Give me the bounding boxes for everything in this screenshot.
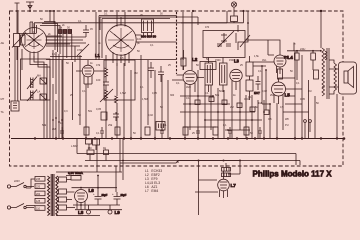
pickup jacks (304, 120, 312, 139)
svg-text:0,1: 0,1 (186, 96, 190, 100)
svg-text:Philips Modelo 117 X: Philips Modelo 117 X (253, 170, 333, 179)
svg-text:+: + (93, 192, 95, 196)
svg-text:2M: 2M (230, 105, 234, 109)
wires tube2 feed (96, 12, 102, 60)
trimmer row (217, 44, 231, 46)
mid column components (100, 55, 131, 139)
svg-text:L8: L8 (78, 210, 84, 215)
svg-text:0,1: 0,1 (52, 53, 56, 56)
right small parts (287, 43, 327, 80)
terminal block MT (11, 101, 19, 111)
small parts row (AF/AVC) (180, 96, 309, 130)
svg-text:P1: P1 (284, 56, 288, 60)
svg-text:50: 50 (67, 26, 70, 30)
antenna terminal 1 (15, 3, 20, 12)
svg-text:100: 100 (96, 78, 101, 82)
left margin labels (1, 41, 5, 114)
svg-text:0,1: 0,1 (78, 20, 82, 23)
tube L5 (272, 82, 291, 104)
wire right top run (246, 40, 274, 55)
selector labels (14, 178, 41, 210)
svg-text:0,1: 0,1 (150, 44, 154, 47)
svg-text:6,3V 30mA: 6,3V 30mA (68, 171, 83, 175)
svg-text:240v: 240v (300, 48, 306, 51)
svg-text:50: 50 (133, 132, 136, 135)
svg-text:1k: 1k (222, 90, 225, 93)
svg-text:pF: pF (137, 41, 140, 45)
left column junctions (52, 117, 63, 123)
svg-text:300: 300 (170, 94, 175, 97)
svg-text:EXT: EXT (254, 91, 260, 95)
AF junction dots (189, 95, 265, 131)
band coil LW (27, 90, 37, 102)
svg-text:0,1: 0,1 (96, 132, 100, 135)
svg-text:0,5: 0,5 (268, 117, 272, 121)
AF tiny labels (186, 93, 289, 127)
svg-text:50: 50 (78, 114, 81, 117)
antenna coil T1 (12, 11, 26, 60)
svg-text:0,1: 0,1 (248, 96, 252, 99)
svg-text:50: 50 (316, 102, 319, 105)
svg-text:50: 50 (290, 70, 293, 73)
svg-text:L7: L7 (231, 183, 237, 188)
svg-text:AE: AE (1, 41, 5, 45)
rectifier tube L6 (75, 188, 95, 210)
ext antenna cap (254, 76, 261, 95)
svg-text:1M: 1M (134, 72, 137, 75)
cathode labels (71, 145, 107, 150)
trimmer box pair (59, 30, 72, 34)
dial lamp Q (231, 2, 238, 23)
svg-text:50: 50 (66, 62, 69, 65)
wires antenna lattice (18, 12, 36, 34)
wire heater run (181, 11, 244, 23)
tube2 side labels (137, 37, 142, 45)
svg-text:Rg: Rg (103, 147, 107, 150)
secondary taps (59, 177, 67, 210)
resistor network box R900 (136, 19, 177, 42)
svg-text:50: 50 (160, 13, 163, 16)
tube V-gang A (big circle left) (22, 23, 47, 58)
svg-text:WF: WF (285, 117, 289, 121)
svg-text:50: 50 (250, 132, 253, 135)
wires osc grid runs (46, 37, 86, 46)
svg-text:125: 125 (36, 200, 41, 203)
svg-text:0,1: 0,1 (258, 70, 262, 73)
svg-text:2k: 2k (62, 24, 65, 27)
wire L4 plate (268, 40, 280, 55)
svg-text:TA: TA (1, 110, 4, 114)
power transformer (48, 174, 59, 216)
svg-text:0,02: 0,02 (262, 90, 267, 93)
left column verticals (53, 50, 62, 139)
svg-text:L3: L3 (234, 59, 240, 64)
svg-text:0,1: 0,1 (82, 90, 86, 93)
svg-text:0,1: 0,1 (163, 124, 167, 127)
svg-text:1500: 1500 (215, 59, 221, 62)
wires L1 plate (76, 60, 105, 71)
svg-text:2k: 2k (48, 33, 51, 36)
RC pairs above bus (60, 127, 262, 139)
wires top runs (34, 22, 227, 24)
tube L3 (230, 59, 242, 91)
wires lattice feeds from border (50, 11, 54, 24)
heater resistor (68, 171, 83, 180)
svg-text:0,3: 0,3 (64, 110, 68, 113)
svg-text:0,05: 0,05 (96, 107, 102, 111)
svg-text:L9: L9 (115, 210, 121, 215)
voltage selector (26, 177, 45, 211)
wire L5 plate to transformer (279, 78, 303, 89)
svg-text:MA: MA (37, 74, 41, 78)
wire speaker return (336, 94, 338, 139)
speaker (339, 62, 357, 94)
antenna terminal 2 (26, 2, 34, 12)
earth symbols L8 L9 (78, 205, 120, 215)
L7 grid parts (195, 160, 241, 193)
svg-text:1k: 1k (90, 62, 93, 65)
svg-text:7k: 7k (293, 43, 296, 46)
svg-text:AVC: AVC (186, 86, 191, 89)
tube V-gang B (big circle mid) (106, 12, 136, 63)
band switch box 1 (40, 78, 47, 84)
svg-text:1,5k: 1,5k (254, 55, 259, 58)
svg-text:25: 25 (168, 64, 171, 67)
legend tube list (145, 169, 162, 193)
svg-text:47k: 47k (96, 63, 101, 67)
svg-text:L.BAT: L.BAT (71, 145, 78, 148)
svg-text:50k: 50k (215, 93, 220, 97)
svg-text:110: 110 (36, 207, 41, 210)
svg-text:2M: 2M (270, 94, 273, 97)
oscillator section box (203, 31, 250, 58)
svg-text:50: 50 (196, 64, 199, 67)
wire IF feed (183, 12, 192, 70)
svg-text:50: 50 (40, 18, 43, 21)
svg-text:0,05: 0,05 (300, 98, 305, 101)
B+ rail and right verticals (295, 51, 315, 139)
cap polarity marks (93, 192, 114, 196)
svg-text:0,5: 0,5 (280, 106, 284, 109)
svg-text:50k: 50k (88, 110, 93, 113)
tube L1 (82, 53, 100, 84)
wires AVC return (46, 57, 176, 60)
osc value labels (58, 26, 83, 60)
wires osc corner lattice (40, 22, 60, 55)
svg-text:L7 EM4: L7 EM4 (145, 189, 158, 193)
svg-text:L2: L2 (192, 57, 198, 62)
coil shield box B (104, 60, 135, 100)
svg-text:245: 245 (36, 178, 41, 181)
svg-text:5k: 5k (322, 86, 325, 89)
verticals left (15, 47, 86, 139)
enclosure dashed border (10, 11, 344, 166)
variable cap arrow (77, 44, 89, 56)
gang link dashed (176, 12, 178, 74)
bus junctions (34, 137, 346, 140)
svg-text:1,5M: 1,5M (120, 91, 126, 95)
filter cap C+ 2 (114, 192, 127, 205)
svg-text:470: 470 (180, 58, 185, 61)
svg-text:32μF: 32μF (102, 194, 108, 197)
svg-text:25k: 25k (108, 123, 113, 127)
svg-text:0,5: 0,5 (120, 57, 124, 60)
svg-text:L5: L5 (285, 93, 291, 98)
left column corner wires (30, 56, 50, 139)
tone box (156, 122, 165, 131)
band switch box 2 (40, 94, 47, 100)
svg-text:PU: PU (285, 123, 289, 127)
svg-text:0,1: 0,1 (104, 13, 108, 16)
svg-text:220: 220 (36, 186, 41, 189)
svg-text:50: 50 (160, 106, 163, 109)
svg-text:220V: 220V (14, 180, 20, 183)
junction top-left of lamp (192, 10, 194, 12)
power wires (56, 139, 122, 216)
filter cap C+ 1 (95, 188, 108, 205)
svg-text:0,1: 0,1 (223, 124, 227, 127)
svg-text:1M: 1M (258, 101, 262, 105)
svg-text:1,5M: 1,5M (142, 98, 148, 101)
IF can box 2 (200, 62, 216, 70)
svg-text:0,02: 0,02 (148, 114, 153, 117)
IF can B (220, 58, 228, 93)
output tube L7 (218, 171, 237, 198)
tube L2 (circle) (183, 71, 197, 94)
verticals mid (141, 55, 168, 139)
coupling element between L4 L5 (278, 69, 283, 79)
svg-text:L1: L1 (95, 53, 101, 58)
wires around L4 L5 (253, 62, 274, 110)
wires speaker connect (329, 60, 339, 94)
svg-text:45: 45 (90, 28, 93, 31)
svg-text:AVL: AVL (262, 59, 267, 62)
chassis bus (11, 138, 345, 140)
svg-text:50: 50 (137, 50, 140, 53)
junction top far right (320, 10, 322, 12)
verticals right-mid (185, 70, 283, 139)
band coil MW (27, 77, 37, 90)
svg-text:50k: 50k (42, 123, 47, 127)
mid tiny labels (96, 63, 126, 127)
padder caps (63, 25, 89, 62)
lower rails (77, 154, 296, 166)
IF can C (246, 56, 253, 100)
junction top-right of lamp (242, 10, 244, 12)
svg-text:470: 470 (205, 26, 210, 29)
svg-text:470k: 470k (77, 48, 83, 52)
coupling caps mid (148, 62, 164, 82)
mains plug terminals (7, 183, 34, 210)
svg-text:0,05: 0,05 (152, 92, 157, 95)
wires L2 grid (172, 75, 204, 80)
coil shield box A (21, 59, 51, 100)
svg-text:1k: 1k (98, 42, 101, 45)
svg-text:1M: 1M (308, 90, 311, 93)
wires converter plate (46, 36, 71, 44)
svg-text:32μF: 32μF (121, 194, 127, 197)
speaker voice coil (334, 63, 337, 91)
svg-text:0,1: 0,1 (205, 92, 209, 95)
IF can A (205, 58, 213, 93)
scattered value labels (40, 13, 325, 136)
cathode network below bus (86, 139, 109, 161)
svg-text:1500: 1500 (229, 59, 235, 62)
svg-text:0,1: 0,1 (176, 82, 180, 85)
svg-text:200: 200 (36, 193, 41, 196)
svg-text:LA: LA (37, 90, 40, 94)
svg-text:MT: MT (1, 97, 5, 101)
tube L4 (274, 55, 293, 74)
wire AVC drop (238, 11, 248, 50)
output transformer T-out (322, 48, 329, 99)
right labels (293, 43, 306, 52)
wires tube2 pins (113, 52, 129, 66)
wire B+ right drop (320, 11, 322, 48)
grid resistor 470 (181, 50, 186, 70)
svg-text:1k: 1k (233, 94, 236, 97)
svg-text:0,1: 0,1 (296, 82, 300, 85)
svg-text:25: 25 (192, 132, 195, 135)
svg-text:2M: 2M (52, 127, 56, 131)
left tiny labels (37, 74, 56, 132)
svg-text:25: 25 (240, 64, 243, 67)
L1 pin ties (84, 84, 92, 88)
svg-text:+: + (112, 192, 114, 196)
svg-text:0,1: 0,1 (140, 86, 144, 89)
svg-text:150: 150 (88, 147, 93, 150)
